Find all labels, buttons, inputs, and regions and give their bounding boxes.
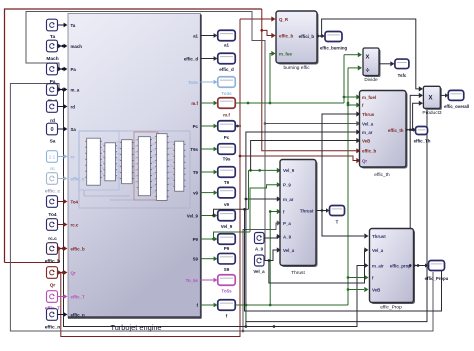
block effic_Prop bbox=[371, 230, 415, 304]
wire out P9 bbox=[201, 238, 215, 240]
svg-text:X: X bbox=[366, 55, 370, 61]
svg-text:effic_c: effic_c bbox=[71, 176, 85, 181]
svg-text:m_air: m_air bbox=[372, 263, 384, 268]
wire effici_b to Product3 bbox=[322, 19, 420, 89]
svg-text:m_fue: m_fue bbox=[279, 52, 292, 57]
svg-text:a1: a1 bbox=[193, 33, 198, 38]
wire Thrust to effic_th Thrus bbox=[322, 114, 359, 211]
svg-text:Vel_a: Vel_a bbox=[253, 269, 265, 274]
svg-text:To3s: To3s bbox=[221, 91, 232, 96]
svg-text:÷: ÷ bbox=[366, 67, 370, 74]
wire Product3 out bbox=[440, 94, 445, 96]
svg-text:rc: rc bbox=[50, 166, 55, 172]
display block effic_Th bbox=[416, 127, 428, 135]
svg-text:0: 0 bbox=[50, 127, 53, 133]
svg-text:Tsfc: Tsfc bbox=[398, 73, 407, 78]
svg-text:T9s: T9s bbox=[190, 147, 198, 152]
wire out To5s bbox=[201, 279, 215, 281]
svg-text:Q_R: Q_R bbox=[279, 17, 289, 22]
svg-text:effic_n: effic_n bbox=[45, 325, 61, 331]
svg-text:Vel_9: Vel_9 bbox=[221, 224, 233, 229]
svg-text:m.f: m.f bbox=[223, 113, 230, 118]
wire rc.c to port bbox=[58, 224, 65, 226]
svg-text:effic_T: effic_T bbox=[71, 294, 85, 299]
svg-text:effic_th: effic_th bbox=[374, 172, 390, 178]
svg-text:To_5s: To_5s bbox=[186, 278, 199, 283]
svg-text:Vel_a: Vel_a bbox=[362, 121, 374, 126]
wire out a1 bbox=[201, 35, 215, 37]
svg-text:m_a: m_a bbox=[71, 87, 80, 92]
wire f bus to Thrust bbox=[236, 304, 247, 306]
block effic_th bbox=[361, 92, 408, 169]
svg-text:Thrust: Thrust bbox=[372, 234, 386, 239]
svg-text:a1: a1 bbox=[224, 43, 230, 48]
source block Pa bbox=[47, 63, 58, 75]
display block S9 bbox=[218, 253, 236, 264]
display block Tsfc bbox=[395, 59, 409, 69]
source block effic_b bbox=[47, 243, 58, 255]
svg-text:Ta: Ta bbox=[50, 34, 56, 40]
svg-text:effic_Prop: effic_Prop bbox=[380, 305, 402, 311]
svg-text:To4: To4 bbox=[71, 199, 79, 204]
svg-text:Vel_9: Vel_9 bbox=[187, 213, 199, 218]
wire Vel_9 bus up to Thrust bbox=[248, 170, 250, 209]
wire bottom route 2 bbox=[246, 110, 427, 322]
thumbnail subsystem preview bbox=[79, 131, 190, 208]
wire effic_n to port bbox=[58, 314, 65, 316]
svg-text:rd: rd bbox=[71, 104, 76, 109]
wire Vel_a to effic_Prop bbox=[269, 250, 365, 283]
svg-text:Qr: Qr bbox=[50, 283, 56, 289]
display block To3s bbox=[218, 77, 236, 88]
svg-text:effic_burning: effic_burning bbox=[320, 46, 348, 51]
wire Qr to port bbox=[58, 272, 65, 274]
wire To4 to port bbox=[58, 201, 65, 203]
wire effic_th out bbox=[406, 129, 414, 131]
display block f bbox=[218, 300, 236, 311]
svg-text:effic_c: effic_c bbox=[45, 189, 61, 195]
wire rc to port bbox=[58, 156, 65, 158]
wire Sa to port bbox=[58, 128, 65, 130]
source block rd bbox=[47, 101, 58, 113]
svg-text:effic_th: effic_th bbox=[388, 128, 404, 133]
block burning effic bbox=[278, 13, 319, 65]
display block v9 bbox=[218, 187, 236, 198]
wire effic_b vertical to burning effic and effic_th bbox=[262, 9, 359, 151]
wire out m.f bbox=[201, 102, 215, 104]
wire out effic_d bbox=[201, 58, 215, 60]
wire Divide out bbox=[379, 63, 392, 65]
wire Vel_a to Thrust bbox=[264, 250, 278, 261]
wire mach branch to effic_th Vel_a bbox=[264, 122, 267, 125]
svg-text:To4: To4 bbox=[48, 212, 57, 218]
svg-text:v9: v9 bbox=[193, 190, 198, 195]
svg-text:Qr: Qr bbox=[71, 270, 76, 275]
wire bottom route 3 bbox=[243, 272, 433, 331]
display block a1 bbox=[218, 30, 236, 41]
svg-text:2:1: 2:1 bbox=[49, 154, 56, 159]
svg-text:Pc: Pc bbox=[193, 124, 199, 129]
display block T9 bbox=[218, 167, 236, 178]
svg-text:VeB: VeB bbox=[362, 138, 370, 143]
wire out T9s bbox=[201, 148, 215, 150]
svg-text:effic_b: effic_b bbox=[71, 246, 85, 251]
wire rd to port bbox=[58, 106, 65, 108]
wire Mach to port bbox=[58, 45, 65, 47]
svg-text:P9: P9 bbox=[224, 246, 230, 251]
wire Qr feedback top (maroon frame) bbox=[5, 9, 262, 263]
wire m.f tap to Divide and effic_th bbox=[236, 102, 345, 104]
wire f to effic_Prop f bbox=[347, 276, 350, 279]
wire Pa feedback via left gray frame bbox=[10, 84, 278, 332]
svg-text:v9: v9 bbox=[224, 202, 230, 207]
wire effic_th to effic_prop junction bbox=[409, 130, 411, 266]
svg-text:effic_prop: effic_prop bbox=[390, 263, 412, 268]
svg-text:VeB: VeB bbox=[372, 287, 380, 292]
svg-text:effic_Propu: effic_Propu bbox=[425, 276, 449, 281]
svg-text:Thrust: Thrust bbox=[300, 208, 314, 213]
source block To4 bbox=[47, 196, 58, 208]
wire Thrust out bbox=[316, 210, 327, 212]
display block effic_burning bbox=[325, 32, 342, 42]
wire VeB to effic_Prop bbox=[347, 288, 350, 291]
svg-text:T: T bbox=[336, 220, 339, 225]
wire Pa to port bbox=[58, 68, 65, 70]
svg-text:T9: T9 bbox=[224, 180, 230, 185]
block Turbojet engine bbox=[68, 14, 201, 318]
block Thrust bbox=[282, 161, 318, 267]
source block rc.c bbox=[47, 219, 58, 231]
wire Product3 in2 bbox=[410, 95, 420, 129]
wire out To3s bbox=[201, 81, 215, 83]
svg-text:A_9: A_9 bbox=[255, 247, 264, 252]
wire m_a feedback bottom bbox=[64, 90, 365, 327]
svg-text:Divide: Divide bbox=[364, 77, 378, 83]
svg-text:Turbojet engine: Turbojet engine bbox=[110, 323, 161, 332]
wire out v9 bbox=[201, 192, 215, 194]
svg-text:Vel_9: Vel_9 bbox=[283, 168, 295, 173]
wire out Pc bbox=[201, 125, 215, 127]
wire mach gray frame bbox=[26, 12, 269, 261]
block Divide bbox=[365, 50, 381, 78]
svg-text:effic_Th: effic_Th bbox=[414, 139, 431, 144]
svg-text:effic_overall: effic_overall bbox=[444, 104, 469, 109]
display block m.f bbox=[218, 98, 236, 109]
svg-text:effic_b: effic_b bbox=[362, 149, 376, 154]
wire effic_b branch to left frame bbox=[5, 249, 60, 263]
source block A_9 bbox=[255, 233, 265, 244]
svg-text:P_9: P_9 bbox=[283, 183, 291, 188]
svg-text:A_9: A_9 bbox=[283, 234, 292, 239]
svg-text:effic_n: effic_n bbox=[71, 312, 85, 317]
svg-text:P9: P9 bbox=[193, 237, 199, 242]
display block effic_overall bbox=[448, 90, 464, 100]
wire out Vel_9 bbox=[201, 215, 215, 217]
source block rc bbox=[47, 151, 58, 163]
source block m_a bbox=[47, 84, 58, 96]
svg-text:Pa: Pa bbox=[71, 67, 77, 72]
display block T9s bbox=[218, 144, 236, 155]
svg-text:X: X bbox=[429, 96, 433, 102]
source block Mach bbox=[47, 40, 58, 52]
svg-text:Pc: Pc bbox=[224, 135, 230, 140]
svg-text:Product3: Product3 bbox=[422, 110, 442, 116]
svg-text:effic_d: effic_d bbox=[184, 56, 198, 61]
wire out f bbox=[201, 304, 215, 306]
wire VeB line to effic_th bbox=[251, 141, 359, 171]
svg-text:To5s: To5s bbox=[221, 288, 232, 293]
display block Pc bbox=[218, 121, 236, 132]
svg-text:Ta: Ta bbox=[71, 23, 76, 28]
display block T bbox=[330, 206, 345, 216]
svg-text:To3s: To3s bbox=[188, 80, 198, 85]
display block effic_d bbox=[218, 53, 236, 64]
wire Pc tap bbox=[236, 125, 242, 127]
wire f bus to Divide and effic_th bbox=[246, 304, 348, 306]
source block effic_c bbox=[47, 173, 58, 185]
wire Thrust to effic_Prop bbox=[322, 211, 364, 237]
source block effic_n bbox=[47, 309, 58, 321]
svg-text:burning effic: burning effic bbox=[283, 65, 310, 71]
source block Sa bbox=[47, 123, 58, 135]
svg-text:T9s: T9s bbox=[223, 157, 231, 162]
wire out S9 bbox=[201, 258, 215, 260]
wire P9 bus up to Thrust P_9 bbox=[250, 185, 278, 232]
svg-text:effic_b: effic_b bbox=[45, 259, 61, 265]
wire Vel_9 branch over block to bus bbox=[212, 214, 215, 217]
wire Qr bottom feedback to effic_th bbox=[61, 19, 240, 337]
source block Qr bbox=[47, 267, 58, 279]
svg-text:Sa: Sa bbox=[50, 139, 56, 145]
svg-text:m.f: m.f bbox=[191, 101, 198, 106]
svg-text:Sa: Sa bbox=[71, 127, 77, 132]
wire Qr riser to Q_R input bbox=[240, 18, 273, 20]
display block P9 bbox=[218, 234, 236, 245]
wire effic_b to port bbox=[58, 248, 65, 250]
svg-text:P_a: P_a bbox=[283, 221, 291, 226]
svg-text:Thrust: Thrust bbox=[291, 270, 305, 276]
wire effic_prop out bbox=[414, 265, 427, 267]
wire Product3 in3 bbox=[413, 103, 420, 130]
svg-text:mach: mach bbox=[71, 44, 83, 49]
wire effic_T to port bbox=[58, 296, 65, 298]
wire out T9 bbox=[201, 171, 215, 173]
svg-text:T9: T9 bbox=[193, 170, 199, 175]
wire m_ar riser to Thrust and effic_th bbox=[246, 132, 359, 327]
svg-text:Thrus: Thrus bbox=[362, 112, 375, 117]
source block effic_T bbox=[47, 291, 58, 303]
wire m_a to port bbox=[58, 89, 65, 91]
svg-text:effici_b: effici_b bbox=[299, 34, 315, 39]
display block effic_Propu bbox=[429, 261, 445, 271]
svg-text:m_fuel: m_fuel bbox=[362, 95, 376, 100]
wire effici_b out bbox=[317, 35, 323, 37]
display block To5s bbox=[218, 275, 236, 286]
svg-text:m_ar: m_ar bbox=[362, 130, 373, 135]
block Product3 bbox=[425, 88, 442, 110]
svg-text:S9: S9 bbox=[193, 257, 199, 262]
svg-text:effic_d: effic_d bbox=[219, 67, 234, 72]
wire Vel_9 bus down to bottom route bbox=[245, 209, 442, 311]
source block Vel_a bbox=[255, 255, 265, 266]
wire P9 branch over block to bus bbox=[212, 238, 215, 241]
wire effic_c to port bbox=[58, 178, 65, 180]
svg-text:S9: S9 bbox=[224, 267, 230, 272]
svg-text:Mach: Mach bbox=[46, 56, 58, 62]
svg-text:Qr: Qr bbox=[362, 158, 367, 163]
svg-text:rc.c: rc.c bbox=[71, 222, 79, 227]
wire A_9 to Thrust bbox=[264, 237, 278, 239]
svg-text:Vel_a: Vel_a bbox=[372, 248, 384, 253]
wire Ta to port bbox=[58, 24, 65, 26]
svg-text:Vel_a: Vel_a bbox=[283, 248, 295, 253]
source block Ta bbox=[47, 19, 58, 31]
display block Vel_9 bbox=[218, 210, 236, 221]
svg-text:effic_b: effic_b bbox=[279, 34, 293, 39]
svg-text:m_ar: m_ar bbox=[283, 197, 294, 202]
wire m_fue riser to burning effic bbox=[270, 54, 273, 104]
svg-text:rc.c: rc.c bbox=[48, 236, 57, 242]
svg-text:rc: rc bbox=[71, 154, 76, 159]
